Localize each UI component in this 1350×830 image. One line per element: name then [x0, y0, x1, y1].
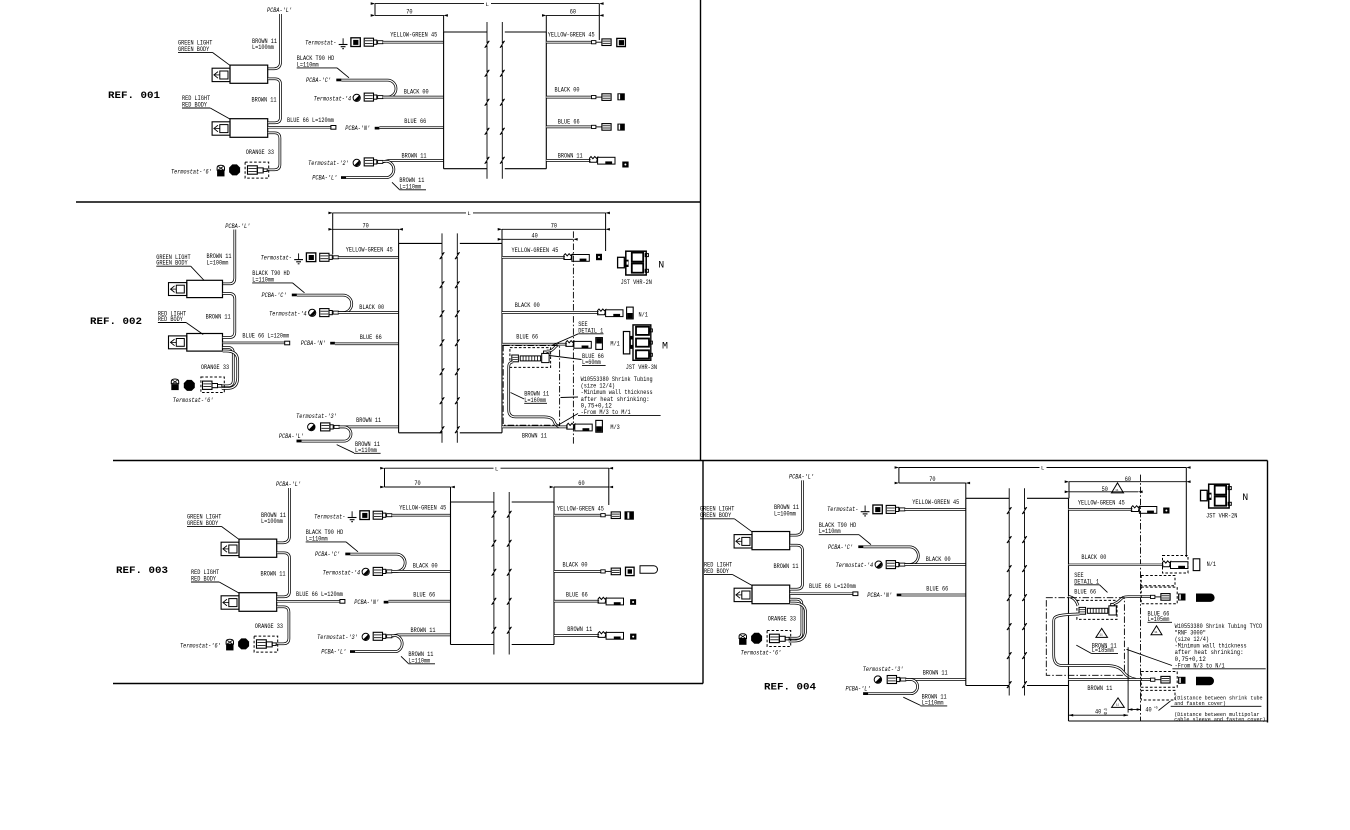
- svg-text:+5: +5: [1154, 707, 1158, 711]
- svg-text:70: 70: [406, 9, 412, 16]
- svg-text:L: L: [1041, 465, 1045, 472]
- svg-text:PCBA-'L': PCBA-'L': [312, 175, 337, 182]
- svg-text:L=110mm: L=110mm: [399, 183, 421, 190]
- svg-text:40: 40: [1145, 707, 1151, 714]
- svg-text:BLUE 66: BLUE 66: [516, 333, 538, 340]
- svg-text:Termostat-: Termostat-: [261, 254, 292, 261]
- svg-text:BROWN 11: BROWN 11: [923, 669, 948, 676]
- svg-text:Termostat-'3': Termostat-'3': [317, 634, 358, 641]
- svg-text:70: 70: [363, 223, 369, 230]
- svg-text:40: 40: [532, 233, 538, 240]
- svg-text:11: 11: [1116, 704, 1119, 707]
- svg-text:40: 40: [1095, 709, 1101, 716]
- svg-text:BLACK 00: BLACK 00: [1081, 554, 1106, 561]
- svg-text:cable sleeve and fasten cover): cable sleeve and fasten cover): [1174, 717, 1266, 723]
- svg-text:BROWN 11: BROWN 11: [261, 571, 286, 578]
- svg-text:GREEN BODY: GREEN BODY: [156, 260, 187, 267]
- svg-text:YELLOW-GREEN 45: YELLOW-GREEN 45: [346, 247, 393, 254]
- svg-text:BLUE 66: BLUE 66: [566, 592, 588, 599]
- svg-text:60: 60: [570, 9, 576, 16]
- svg-text:ORANGE 33: ORANGE 33: [255, 623, 283, 630]
- svg-text:Termostat-'4': Termostat-'4': [269, 310, 310, 317]
- svg-text:M: M: [662, 342, 668, 353]
- svg-text:L=100mm: L=100mm: [252, 44, 274, 51]
- svg-text:L: L: [467, 210, 471, 217]
- svg-text:BLUE 66: BLUE 66: [404, 118, 426, 125]
- svg-text:70: 70: [414, 480, 420, 487]
- svg-text:PCBA-'C': PCBA-'C': [262, 292, 287, 299]
- svg-text:L=110mm: L=110mm: [297, 61, 319, 68]
- svg-text:BLUE 66: BLUE 66: [926, 585, 948, 592]
- svg-text:L=100mm: L=100mm: [261, 518, 283, 525]
- svg-text:ORANGE 33: ORANGE 33: [768, 615, 796, 622]
- svg-text:L=110mm: L=110mm: [306, 535, 328, 542]
- svg-text:BROWN 11: BROWN 11: [774, 563, 799, 570]
- svg-text:YELLOW-GREEN 45: YELLOW-GREEN 45: [912, 499, 959, 506]
- svg-text:BROWN 11: BROWN 11: [567, 626, 592, 633]
- svg-text:70: 70: [551, 223, 557, 230]
- svg-text:BROWN 11: BROWN 11: [558, 152, 583, 159]
- svg-text:PCBA-'L': PCBA-'L': [789, 473, 814, 480]
- svg-text:BROWN 11: BROWN 11: [252, 97, 277, 104]
- svg-text:BROWN 11: BROWN 11: [522, 432, 547, 439]
- svg-text:PCBA-'C': PCBA-'C': [315, 551, 340, 558]
- svg-text:RED BODY: RED BODY: [191, 575, 216, 582]
- svg-text:PCBA-'L': PCBA-'L': [321, 649, 346, 656]
- svg-text:BLUE 66: BLUE 66: [558, 119, 580, 126]
- svg-text:PCBA-'N': PCBA-'N': [867, 592, 892, 599]
- svg-text:RED BODY: RED BODY: [704, 568, 729, 575]
- svg-text:L: L: [486, 1, 490, 8]
- svg-text:ORANGE 33: ORANGE 33: [201, 364, 229, 371]
- svg-text:BLACK 00: BLACK 00: [926, 556, 951, 563]
- svg-text:BROWN 11: BROWN 11: [356, 417, 381, 424]
- svg-text:11: 11: [1100, 634, 1103, 637]
- svg-text:L=110mm: L=110mm: [819, 528, 841, 535]
- svg-text:L=100mm: L=100mm: [207, 259, 229, 266]
- svg-text:Termostat-: Termostat-: [314, 513, 345, 520]
- svg-text:BLUE 66: BLUE 66: [1074, 589, 1096, 596]
- svg-text:YELLOW-GREEN 45: YELLOW-GREEN 45: [399, 505, 446, 512]
- svg-text:Termostat-'4': Termostat-'4': [314, 95, 355, 102]
- svg-text:RED BODY: RED BODY: [158, 316, 183, 323]
- svg-text:RED BODY: RED BODY: [182, 101, 207, 108]
- svg-text:PCBA-'L': PCBA-'L': [225, 223, 250, 230]
- svg-text:Termostat-'3': Termostat-'3': [296, 413, 337, 420]
- svg-text:BLUE 66 L=120mm: BLUE 66 L=120mm: [242, 332, 289, 339]
- svg-text:0: 0: [1104, 713, 1108, 717]
- svg-text:REF. 001: REF. 001: [108, 90, 160, 102]
- svg-text:BLACK 00: BLACK 00: [555, 87, 580, 94]
- svg-text:N: N: [1242, 493, 1248, 504]
- svg-text:Termostat-'4': Termostat-'4': [836, 562, 877, 569]
- svg-text:JST VHR-2N: JST VHR-2N: [621, 279, 652, 286]
- svg-text:M/3: M/3: [610, 424, 620, 431]
- svg-text:PCBA-'L': PCBA-'L': [279, 433, 304, 440]
- svg-text:Termostat-'3': Termostat-'3': [863, 666, 904, 673]
- svg-text:YELLOW-GREEN 45: YELLOW-GREEN 45: [1078, 499, 1125, 506]
- svg-text:60: 60: [578, 480, 584, 487]
- svg-text:BLUE 66 L=120mm: BLUE 66 L=120mm: [809, 583, 856, 590]
- svg-text:YELLOW-GREEN 45: YELLOW-GREEN 45: [512, 247, 559, 254]
- svg-text:L=100mm: L=100mm: [774, 510, 796, 517]
- svg-text:YELLOW-GREEN 45: YELLOW-GREEN 45: [390, 32, 437, 39]
- svg-text:PCBA-'L': PCBA-'L': [846, 686, 871, 693]
- svg-text:BROWN 11: BROWN 11: [402, 153, 427, 160]
- svg-text:PCBA-'L': PCBA-'L': [267, 7, 292, 14]
- svg-text:11: 11: [1154, 631, 1157, 634]
- svg-text:Termostat-: Termostat-: [305, 39, 336, 46]
- svg-text:N/1: N/1: [1207, 561, 1217, 568]
- svg-text:JST VHR-2N: JST VHR-2N: [1206, 513, 1237, 520]
- svg-text:BLUE 66: BLUE 66: [360, 334, 382, 341]
- svg-text:Termostat-'6': Termostat-'6': [180, 642, 221, 649]
- svg-text:BROWN 11: BROWN 11: [1087, 685, 1112, 692]
- svg-text:60: 60: [1125, 476, 1131, 483]
- svg-text:BLUE 66 L=120mm: BLUE 66 L=120mm: [296, 591, 343, 598]
- svg-text:JST VHR-3N: JST VHR-3N: [626, 364, 657, 371]
- svg-text:BROWN 11: BROWN 11: [206, 313, 231, 320]
- svg-text:BLACK 00: BLACK 00: [404, 88, 429, 95]
- svg-text:GREEN BODY: GREEN BODY: [187, 520, 218, 527]
- svg-text:BROWN 11: BROWN 11: [411, 627, 436, 634]
- svg-text:YELLOW-GREEN 45: YELLOW-GREEN 45: [557, 506, 604, 513]
- svg-text:Termostat-'6': Termostat-'6': [173, 397, 214, 404]
- svg-text:GREEN BODY: GREEN BODY: [700, 512, 731, 519]
- svg-text:BLACK 00: BLACK 00: [413, 563, 438, 570]
- svg-text:50: 50: [1102, 486, 1108, 493]
- svg-text:-From M/3 to M/1: -From M/3 to M/1: [581, 409, 631, 416]
- svg-text:BLACK 00: BLACK 00: [563, 561, 588, 568]
- svg-text:11: 11: [1115, 489, 1118, 492]
- svg-text:BLACK 00: BLACK 00: [359, 304, 384, 311]
- svg-text:Termostat-: Termostat-: [827, 506, 858, 513]
- svg-text:L: L: [495, 465, 499, 472]
- svg-text:Termostat-'2': Termostat-'2': [308, 160, 349, 167]
- svg-text:REF. 004: REF. 004: [764, 682, 816, 694]
- svg-text:REF. 002: REF. 002: [90, 316, 142, 328]
- svg-text:PCBA-'N': PCBA-'N': [354, 599, 379, 606]
- svg-text:Termostat-'6': Termostat-'6': [741, 650, 782, 657]
- svg-text:BLUE 66 L=120mm: BLUE 66 L=120mm: [287, 117, 334, 124]
- svg-text:Termostat-'4': Termostat-'4': [323, 569, 364, 576]
- svg-text:M/1: M/1: [610, 341, 620, 348]
- svg-text:70: 70: [929, 476, 935, 483]
- svg-text:PCBA-'N': PCBA-'N': [345, 125, 370, 132]
- svg-text:N/1: N/1: [639, 311, 649, 318]
- svg-text:PCBA-'C': PCBA-'C': [306, 77, 331, 84]
- svg-text:BLACK 00: BLACK 00: [515, 302, 540, 309]
- svg-text:N: N: [658, 261, 664, 272]
- svg-text:YELLOW-GREEN 45: YELLOW-GREEN 45: [548, 32, 595, 39]
- svg-text:PCBA-'C': PCBA-'C': [828, 544, 853, 551]
- svg-text:PCBA-'N': PCBA-'N': [301, 340, 326, 347]
- svg-text:BLUE 66: BLUE 66: [413, 592, 435, 599]
- svg-text:Termostat-'6': Termostat-'6': [171, 168, 212, 175]
- svg-text:PCBA-'L': PCBA-'L': [276, 481, 301, 488]
- svg-text:GREEN BODY: GREEN BODY: [178, 46, 209, 53]
- svg-text:ORANGE 33: ORANGE 33: [246, 149, 274, 156]
- svg-text:L=110mm: L=110mm: [252, 276, 274, 283]
- svg-text:REF. 003: REF. 003: [116, 565, 168, 577]
